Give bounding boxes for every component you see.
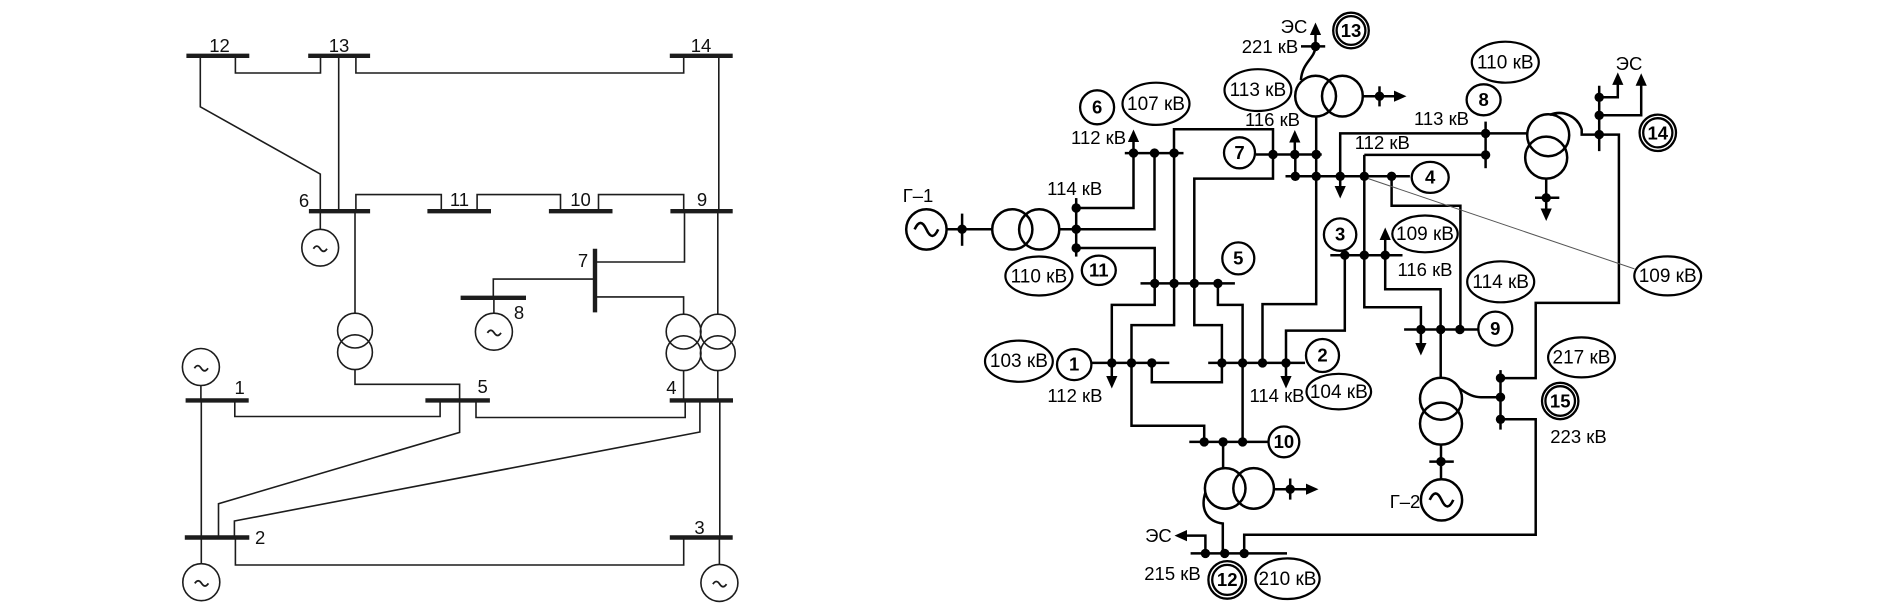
wire 8-4 a and 8-T14 xyxy=(1340,133,1527,176)
wire 7-5 xyxy=(1194,155,1273,284)
dots node 15 bus xyxy=(1496,373,1505,382)
tick G-1 xyxy=(961,214,964,246)
bus 8 xyxy=(461,296,526,300)
svg-text:8: 8 xyxy=(514,302,524,323)
ellipse 110 kV node 11 xyxy=(1005,257,1072,296)
bus 2 xyxy=(185,535,250,539)
tilde generator G2 xyxy=(195,581,209,586)
wire 2-4 xyxy=(234,400,700,537)
wire 13-14 xyxy=(356,56,684,73)
transformer 4-9 xyxy=(700,314,735,370)
svg-text:12: 12 xyxy=(209,35,230,56)
transformer 4-7 xyxy=(666,314,701,370)
wire transformer G-2 curve to 15 xyxy=(1460,389,1501,398)
svg-text:11: 11 xyxy=(450,189,469,210)
wire 1-2 xyxy=(1152,363,1222,382)
svg-text:223 кВ: 223 кВ xyxy=(1550,426,1606,447)
arrow up node 6 xyxy=(1128,130,1139,154)
svg-text:3: 3 xyxy=(1335,224,1345,245)
wire 1-2 xyxy=(200,400,202,537)
arrow right transformer 13 load xyxy=(1394,91,1407,102)
wire 11 to 6 (left) xyxy=(1076,153,1133,208)
wire transformer 12 curve to node 12 xyxy=(1204,493,1223,554)
svg-text:110 кВ: 110 кВ xyxy=(1477,53,1534,74)
ellipse 110 kV node 8 xyxy=(1472,42,1539,83)
wire 10 to transformer 12 xyxy=(1222,442,1225,468)
tilde generator G6 xyxy=(313,246,327,251)
svg-text:6: 6 xyxy=(299,190,309,211)
wire transformer 5-6 to bus 5 xyxy=(355,370,460,401)
node 1 circle xyxy=(1057,349,1091,380)
dots node 7 bus xyxy=(1268,150,1277,159)
wire 6-7 xyxy=(1174,129,1273,154)
bus 1 xyxy=(186,398,249,402)
wire 12-15 xyxy=(1244,419,1536,553)
wire 12-13 xyxy=(235,56,320,73)
bus 4 xyxy=(670,398,733,402)
ellipse 104 kV node 2 xyxy=(1307,374,1372,410)
svg-text:ЭС: ЭС xyxy=(1145,525,1172,546)
thin callout line node 4 to 109 kV xyxy=(1365,178,1635,269)
node 6 circle xyxy=(1080,90,1114,124)
node 2 circle xyxy=(1306,339,1339,372)
wire transformer 13 to 7 and 4 xyxy=(1315,116,1318,176)
generator G-2 xyxy=(1421,479,1462,520)
transformer G-1 xyxy=(992,209,1059,249)
left diagram labels xyxy=(209,35,711,548)
dot node 13 xyxy=(1311,42,1320,51)
wire 13-6 xyxy=(338,56,340,211)
arrow up node 7 xyxy=(1289,130,1300,155)
svg-text:9: 9 xyxy=(697,189,707,210)
svg-text:ЭС: ЭС xyxy=(1281,16,1308,37)
svg-text:104 кВ: 104 кВ xyxy=(1310,382,1368,403)
dots node 11 bus xyxy=(1072,203,1081,212)
wire 9 to transformer G-2 xyxy=(1439,330,1442,379)
svg-text:113 кВ: 113 кВ xyxy=(1230,80,1287,101)
node 11 bus xyxy=(1075,198,1078,257)
svg-text:210 кВ: 210 кВ xyxy=(1259,569,1317,590)
wire 1-5 xyxy=(235,400,440,416)
node 7 circle xyxy=(1224,137,1255,168)
generator G1 xyxy=(182,349,219,401)
ellipse 103 kV node 1 xyxy=(985,341,1053,382)
wire 5-2 b xyxy=(1218,283,1243,363)
transformer 14 xyxy=(1525,114,1569,178)
svg-text:2: 2 xyxy=(255,527,265,548)
node 10 bus xyxy=(1189,441,1268,444)
svg-text:9: 9 xyxy=(1490,318,1500,339)
svg-text:107 кВ: 107 кВ xyxy=(1127,94,1185,115)
dots node 1 bus xyxy=(1107,358,1116,367)
svg-text:15: 15 xyxy=(1550,391,1571,412)
transformer G-2 xyxy=(1420,378,1462,445)
dots node 6 bus xyxy=(1129,148,1138,157)
arrow right transformer 12 load xyxy=(1306,484,1319,495)
svg-text:13: 13 xyxy=(1341,20,1362,41)
wire G-1 to transformer xyxy=(947,228,993,231)
svg-text:4: 4 xyxy=(1425,167,1436,188)
wire 12-6 xyxy=(200,56,320,211)
node 3 circle xyxy=(1324,218,1356,250)
svg-text:10: 10 xyxy=(1274,431,1295,452)
wire 5-1 b xyxy=(1132,283,1175,363)
svg-text:6: 6 xyxy=(1092,97,1102,118)
wire 2-3 xyxy=(1286,255,1345,363)
wire 8-4 b horizontal xyxy=(1364,154,1485,157)
wire 5-1 a xyxy=(1112,283,1155,363)
wire 2-10 xyxy=(1241,363,1244,442)
wire 2-3 xyxy=(235,538,683,566)
arrow down node 9 xyxy=(1415,343,1426,356)
svg-text:13: 13 xyxy=(329,35,350,56)
tilde generator G1 xyxy=(194,366,208,371)
svg-text:12: 12 xyxy=(1217,569,1238,590)
generator G3 xyxy=(701,538,738,602)
arrow down node 4 xyxy=(1335,176,1346,198)
svg-text:14: 14 xyxy=(691,35,712,56)
ellipse 107 kV node 6 xyxy=(1123,83,1190,125)
wire 3-9 b xyxy=(1385,255,1440,329)
transformer 12 load xyxy=(1274,479,1307,500)
wire 11 to 6 (right) xyxy=(1076,153,1154,229)
wire 7-4 xyxy=(1294,155,1297,177)
sine generator G-2 xyxy=(1430,493,1454,506)
wire ES-13 node curve xyxy=(1301,46,1316,80)
bus 14 xyxy=(670,54,733,58)
arrow down transformer 14 load xyxy=(1541,209,1552,222)
wire 10-9 xyxy=(599,195,684,212)
node 7 bus xyxy=(1256,153,1322,156)
svg-text:215 кВ: 215 кВ xyxy=(1144,563,1200,584)
node 12 double circle xyxy=(1208,561,1246,599)
wire 4-9 xyxy=(1392,176,1461,329)
generator sine glyphs xyxy=(915,223,1454,507)
svg-text:1: 1 xyxy=(234,377,244,398)
wire 7 to transformer 4-7 xyxy=(595,297,684,314)
node 5 bus xyxy=(1141,282,1235,285)
node 6 bus xyxy=(1125,152,1184,155)
svg-text:114 кВ: 114 кВ xyxy=(1472,272,1529,293)
svg-text:112 кВ: 112 кВ xyxy=(1047,385,1102,406)
wire 6-11 xyxy=(356,195,441,212)
svg-text:5: 5 xyxy=(478,376,488,397)
ellipse 114 kV node 9 xyxy=(1467,261,1534,302)
node 12 bus xyxy=(1191,552,1287,555)
node 8 circle xyxy=(1467,84,1501,115)
node 4 bus xyxy=(1286,175,1410,178)
dot transformer 13 load xyxy=(1375,92,1384,101)
svg-text:3: 3 xyxy=(694,517,704,538)
tilde generator G3 xyxy=(713,582,727,587)
svg-text:113 кВ: 113 кВ xyxy=(1414,108,1469,129)
bus 3 xyxy=(670,535,733,539)
node 9 bus xyxy=(1404,328,1478,331)
node 3 bus xyxy=(1330,254,1402,257)
svg-text:112 кВ: 112 кВ xyxy=(1071,127,1126,148)
svg-text:2: 2 xyxy=(1317,345,1327,366)
node 2 bus xyxy=(1208,362,1305,365)
dots node 10 bus xyxy=(1200,437,1209,446)
dots node 9 bus xyxy=(1416,325,1425,334)
arrow up node 3 xyxy=(1380,228,1391,256)
svg-text:4: 4 xyxy=(666,377,676,398)
wire transformer 4-9 to bus 4 xyxy=(717,371,719,401)
wire 14-15 xyxy=(1501,135,1619,379)
ellipse 109 kV node 3 xyxy=(1392,216,1457,253)
transformer 13 xyxy=(1295,76,1363,117)
arrow down node 2 xyxy=(1280,363,1291,389)
svg-text:103 кВ: 103 кВ xyxy=(990,351,1048,372)
bus 13 xyxy=(308,54,370,58)
svg-text:14: 14 xyxy=(1648,122,1669,143)
svg-text:ЭС: ЭС xyxy=(1616,53,1643,74)
generator G2 xyxy=(183,538,220,601)
svg-text:Г–2: Г–2 xyxy=(1390,491,1421,512)
svg-text:217 кВ: 217 кВ xyxy=(1553,348,1611,369)
node number texts xyxy=(1069,20,1669,590)
wire 6-5 xyxy=(1173,153,1176,283)
svg-text:114 кВ: 114 кВ xyxy=(1047,178,1102,199)
wire transformer 14 curve to node 14 xyxy=(1550,113,1599,135)
dots node 12 bus xyxy=(1201,549,1210,558)
node 15 double circle xyxy=(1542,383,1578,419)
bus 9 xyxy=(670,209,732,213)
arrow up ES-14 a xyxy=(1612,72,1623,85)
wire 9-7 xyxy=(595,211,685,262)
wire 7-8 xyxy=(493,279,595,298)
wire transformer G-1 to node 11 xyxy=(1059,228,1076,231)
wire transformer 4-7 to bus 4 xyxy=(683,371,685,401)
wire 5-2 a xyxy=(1194,283,1222,363)
dot transformer 14 tick xyxy=(1542,193,1551,202)
dots node 5 bus xyxy=(1150,279,1159,288)
wire 2-4 xyxy=(1263,176,1317,363)
svg-text:7: 7 xyxy=(1234,142,1244,163)
generator G8 xyxy=(475,298,512,350)
svg-text:109 кВ: 109 кВ xyxy=(1396,224,1454,245)
bus 5 xyxy=(425,398,490,402)
sine generator G-1 xyxy=(915,223,939,236)
node 14 bus xyxy=(1598,86,1601,151)
svg-text:10: 10 xyxy=(570,189,591,210)
arrow up ES-14 b xyxy=(1636,73,1647,86)
bus 10 xyxy=(549,209,613,213)
svg-text:11: 11 xyxy=(1089,260,1109,281)
node 15 bus xyxy=(1499,370,1502,430)
node 4 circle xyxy=(1412,162,1449,193)
wire 1-10 xyxy=(1132,363,1205,442)
node 10 circle xyxy=(1269,427,1300,458)
generator tildes xyxy=(194,246,726,587)
ellipse 210 kV node 12 xyxy=(1255,558,1319,599)
svg-text:110 кВ: 110 кВ xyxy=(1011,266,1068,287)
ellipse 113 kV node 13 xyxy=(1225,69,1292,111)
wire transformer 14 load xyxy=(1545,179,1548,210)
bus 7 xyxy=(593,249,597,313)
wire 3-4 xyxy=(719,400,721,537)
node circles xyxy=(1057,13,1676,599)
arrow up node 13 ES xyxy=(1310,23,1321,47)
dots node 2 bus xyxy=(1217,358,1226,367)
arrow left ES-12 xyxy=(1175,530,1188,541)
ellipse 217 kV node 15 xyxy=(1548,337,1615,377)
wire 6 to transformer 5-6 xyxy=(354,211,356,313)
wire 4-5 xyxy=(476,400,685,417)
node 13 double circle xyxy=(1333,13,1369,49)
wire 11 to 5 xyxy=(1076,248,1155,283)
bus 11 xyxy=(427,209,491,213)
node 1 bus xyxy=(1092,362,1169,365)
arrowheads xyxy=(1106,23,1647,542)
wire ES-14 a xyxy=(1599,80,1618,97)
wire transformer G-2 to generator xyxy=(1440,445,1443,480)
svg-text:1: 1 xyxy=(1069,354,1079,375)
tick G-2 xyxy=(1429,460,1454,463)
wire 9 load arrow shaft xyxy=(1420,330,1423,348)
dot G-1 tick xyxy=(957,225,966,234)
node 9 circle xyxy=(1478,312,1512,346)
wire ES-14 b xyxy=(1599,81,1641,116)
right diagram texts xyxy=(903,16,1643,584)
svg-text:116 кВ: 116 кВ xyxy=(1245,109,1300,130)
svg-text:8: 8 xyxy=(1478,89,1488,110)
bus 12 xyxy=(186,54,249,58)
node 11 circle xyxy=(1082,256,1116,285)
tilde generator G8 xyxy=(487,330,501,335)
bus 6 xyxy=(309,209,370,213)
svg-text:7: 7 xyxy=(578,250,588,271)
svg-text:109 кВ: 109 кВ xyxy=(1639,266,1697,287)
svg-text:Г–1: Г–1 xyxy=(903,185,934,206)
wire 14-9 xyxy=(718,56,720,211)
tick transformer 14 xyxy=(1535,197,1559,200)
svg-text:116 кВ: 116 кВ xyxy=(1397,259,1452,280)
svg-text:5: 5 xyxy=(1233,248,1243,269)
dot G-2 tick xyxy=(1436,457,1445,466)
dots node 8 bus xyxy=(1481,129,1490,138)
ellipse 109 kV node 4 callout xyxy=(1634,256,1701,295)
dot transformer 12 load xyxy=(1286,485,1295,494)
node 5 circle xyxy=(1222,242,1254,274)
wire 2-5 xyxy=(219,400,460,537)
voltage ellipse texts xyxy=(990,53,1697,591)
transformer 5-6 xyxy=(338,313,373,369)
dots node 14 bus xyxy=(1595,93,1604,102)
wire 11-10 xyxy=(477,195,560,212)
wire ES-12 xyxy=(1186,536,1205,554)
generator G-1 xyxy=(906,209,946,249)
svg-text:221 кВ: 221 кВ xyxy=(1242,36,1298,57)
transformer 13 load xyxy=(1363,86,1395,106)
transformer 12 xyxy=(1205,468,1274,509)
wire 4-3 and 8-4 b lower xyxy=(1363,155,1366,255)
svg-text:112 кВ: 112 кВ xyxy=(1355,132,1410,153)
arrow down node 1 xyxy=(1106,363,1117,389)
tick node 13 xyxy=(1301,45,1325,48)
node 8 bus xyxy=(1484,122,1487,169)
dots node 4 bus xyxy=(1291,172,1300,181)
generator G6 xyxy=(302,211,339,266)
node 14 double circle xyxy=(1640,115,1676,151)
dots node 3 bus xyxy=(1340,251,1349,260)
svg-text:114 кВ: 114 кВ xyxy=(1249,385,1304,406)
wire 3-9 a xyxy=(1364,255,1421,329)
wire 9 to transformer 4-9 xyxy=(717,211,719,314)
voltage ellipses xyxy=(985,42,1701,599)
